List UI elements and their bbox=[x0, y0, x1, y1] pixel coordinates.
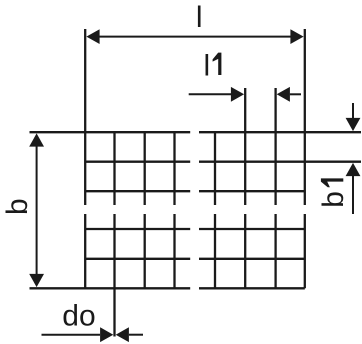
svg-text:l: l bbox=[196, 1, 203, 34]
wire v6 (l1 left extension) bbox=[244, 88, 246, 288]
wire v3 bbox=[144, 132, 146, 288]
dimension line b bbox=[36, 146, 38, 275]
dimension line l1 left tail bbox=[189, 93, 232, 95]
svg-text:l: l bbox=[204, 49, 211, 82]
wire v1 (left mesh edge + l left extension) bbox=[84, 29, 86, 288]
arrowhead l left bbox=[86, 29, 99, 44]
wire h5 bbox=[85, 258, 305, 260]
wire h1 (top mesh edge + b/b1 extensions) bbox=[30, 131, 362, 133]
wire v4 bbox=[173, 132, 175, 288]
wire v7 (l1 right extension) bbox=[274, 88, 276, 288]
dimension line l bbox=[99, 36, 291, 38]
dimension line do right tail bbox=[129, 334, 143, 336]
arrowhead b1 top (down) bbox=[346, 118, 361, 131]
wire h3 bbox=[85, 190, 305, 192]
svg-text:b: b bbox=[1, 198, 34, 215]
arrowhead b top bbox=[29, 133, 44, 146]
arrowhead do left bbox=[100, 327, 113, 342]
arrowhead b1 bottom (up) bbox=[346, 163, 361, 176]
dimension line b1 lower segment bbox=[352, 176, 354, 214]
svg-text:do: do bbox=[62, 300, 95, 333]
svg-text:b: b bbox=[317, 191, 350, 208]
dimension line b1 upper segment bbox=[352, 103, 354, 119]
wire v5 bbox=[214, 132, 216, 288]
arrowhead do right bbox=[116, 327, 129, 342]
wire v2 (do wire, extends below mesh) bbox=[113, 132, 115, 336]
arrowhead l1 left bbox=[231, 87, 244, 102]
arrowhead l1 right bbox=[277, 87, 290, 102]
wire h4 bbox=[85, 228, 305, 230]
wire h2 (b1 bottom extension) bbox=[85, 161, 361, 163]
dimension line do left tail bbox=[42, 334, 101, 336]
arrowhead b bottom bbox=[29, 274, 44, 287]
dimension line l1 right tail bbox=[290, 93, 301, 95]
wire v8 (right mesh edge + l right extension) bbox=[304, 29, 306, 288]
arrowhead l right bbox=[290, 29, 303, 44]
wire h6 (bottom mesh edge + b extension) bbox=[30, 287, 305, 289]
